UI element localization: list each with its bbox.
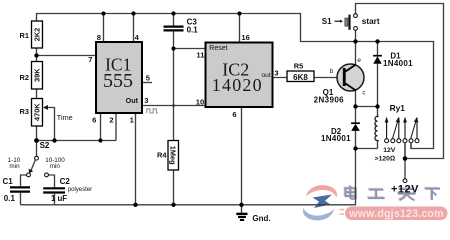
- svg-text:2: 2: [109, 115, 113, 124]
- svg-text:6: 6: [232, 110, 236, 119]
- svg-text:min: min: [50, 163, 61, 170]
- svg-text:C1: C1: [3, 177, 14, 186]
- svg-text:1N4001: 1N4001: [383, 59, 413, 68]
- svg-text:Reset: Reset: [209, 45, 227, 52]
- svg-text:R5: R5: [294, 62, 303, 71]
- svg-text:R2: R2: [20, 73, 29, 82]
- svg-text:Out: Out: [126, 96, 139, 105]
- svg-text:470K: 470K: [33, 103, 42, 121]
- svg-text:6K8: 6K8: [293, 73, 308, 82]
- svg-text:12V: 12V: [383, 147, 396, 154]
- svg-text:555: 555: [103, 70, 133, 92]
- svg-text:6: 6: [92, 115, 96, 124]
- svg-text:start: start: [362, 17, 380, 26]
- svg-text:2K2: 2K2: [33, 28, 42, 42]
- svg-text:>120Ω: >120Ω: [375, 156, 396, 163]
- svg-text:R3: R3: [20, 107, 29, 116]
- svg-text:C2: C2: [60, 177, 71, 186]
- svg-text:8: 8: [97, 33, 101, 42]
- svg-text:S2: S2: [40, 141, 50, 150]
- svg-text:out: out: [262, 72, 271, 79]
- svg-text:39K: 39K: [33, 68, 42, 82]
- svg-text:min: min: [9, 163, 20, 170]
- svg-text:R1: R1: [20, 31, 29, 40]
- svg-text:7: 7: [88, 55, 92, 64]
- svg-text:Time: Time: [57, 113, 73, 122]
- svg-text:S1: S1: [322, 17, 332, 26]
- svg-text:1Meg: 1Meg: [168, 146, 177, 165]
- svg-text:14020: 14020: [212, 75, 263, 95]
- svg-text:R4: R4: [157, 150, 167, 159]
- svg-text:e: e: [357, 57, 361, 64]
- svg-text:+12V: +12V: [391, 183, 419, 195]
- svg-text:2N3906: 2N3906: [314, 95, 345, 104]
- svg-text:1N4001: 1N4001: [321, 134, 351, 143]
- svg-text:polyester: polyester: [68, 187, 92, 193]
- svg-text:Ry1: Ry1: [390, 103, 406, 113]
- svg-text:0.1: 0.1: [187, 26, 199, 35]
- svg-text:10: 10: [196, 97, 204, 106]
- svg-text:b: b: [330, 68, 334, 75]
- svg-text:Gnd.: Gnd.: [252, 214, 270, 223]
- svg-text:0.1: 0.1: [4, 194, 16, 203]
- svg-text:16: 16: [241, 33, 249, 42]
- svg-text:11: 11: [196, 51, 205, 60]
- svg-text:www.dgjs123.com: www.dgjs123.com: [348, 208, 443, 220]
- svg-text:3: 3: [274, 68, 278, 77]
- svg-text:1 uF: 1 uF: [51, 194, 67, 203]
- svg-text:3: 3: [144, 96, 148, 105]
